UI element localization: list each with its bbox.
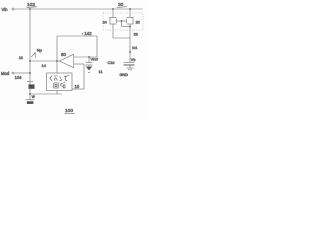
wire left FET drain to cap column	[113, 24, 130, 38]
label 102	[27, 2, 37, 8]
svg-text:60: 60	[61, 52, 66, 57]
wire clamp box ground lead	[30, 91, 62, 95]
svg-text:24: 24	[103, 21, 107, 25]
wire gate line between mirror transistors	[117, 20, 127, 22]
svg-text:GND: GND	[120, 73, 129, 77]
node rail / right FET source	[129, 8, 131, 10]
wire 142 horizontal	[57, 35, 97, 37]
label 20	[117, 2, 128, 8]
input terminal Vin	[2, 7, 15, 12]
svg-text:Mod: Mod	[1, 71, 10, 76]
wire gate to right drain (diode connection)	[122, 21, 131, 27]
wire top rail	[14, 8, 142, 10]
wire vertical from 142 line down to clamp box	[56, 36, 58, 73]
pseudo-glyph n	[59, 77, 62, 81]
ground GND below C10	[120, 68, 134, 77]
node wire14 / vertical 142 branch	[56, 60, 58, 62]
wire Mod input	[14, 72, 30, 74]
pseudo-glyph ra	[54, 76, 58, 81]
svg-text:23: 23	[134, 33, 138, 37]
transistor Np	[19, 48, 43, 60]
wire right FET drain stub	[129, 24, 131, 63]
capacitor at Vref node	[86, 57, 93, 67]
node gate midpoint	[121, 20, 123, 22]
ground left	[26, 95, 35, 104]
svg-text:Vb: Vb	[131, 58, 136, 62]
current mirror block 20 dashed box	[103, 13, 143, 30]
svg-text:Ix1: Ix1	[132, 46, 137, 50]
svg-text:14: 14	[42, 63, 47, 68]
wire 14 : base node to op-amp tip	[30, 60, 60, 62]
node Vb	[129, 51, 135, 62]
node Vref	[88, 56, 98, 61]
pseudo-glyph ro	[60, 83, 65, 88]
op-amp 60	[60, 52, 74, 68]
svg-text:11: 11	[99, 70, 103, 74]
pseudo-glyph kai	[54, 83, 58, 88]
svg-text:18: 18	[19, 56, 23, 60]
node rail / left FET source	[112, 8, 114, 10]
ground below Vref capacitor	[86, 67, 103, 74]
svg-text:Np: Np	[37, 48, 43, 53]
transistor M2 (right of mirror)	[127, 9, 140, 25]
node right drain / gate tie	[129, 26, 131, 28]
wire op-amp lower input feedback	[72, 64, 84, 89]
node at rail/left vertical	[29, 8, 31, 10]
svg-text:Vin: Vin	[2, 7, 9, 12]
wire 142 right vertical down to Vref node	[96, 36, 98, 57]
pseudo-glyph ku	[50, 76, 52, 81]
capacitor C10	[108, 61, 135, 68]
wire op-amp upper input to Vref node	[74, 56, 97, 58]
svg-text:10: 10	[75, 84, 80, 89]
diode D on left vertical	[27, 82, 35, 89]
figure label 100	[65, 108, 76, 114]
clamp circuit box 10	[47, 73, 73, 91]
transistor M1 (left of mirror)	[103, 9, 117, 25]
node Mod / left vertical	[29, 72, 31, 74]
node ground rail / left vertical	[29, 93, 31, 95]
svg-text:Vref: Vref	[91, 57, 99, 62]
wire left vertical	[29, 9, 31, 100]
node base wire / left vertical	[29, 60, 31, 62]
label 142	[82, 33, 83, 34]
svg-text:142: 142	[84, 31, 92, 36]
pseudo-glyph pu	[64, 75, 69, 80]
svg-text:104: 104	[15, 75, 23, 80]
svg-text:25: 25	[136, 21, 140, 25]
input terminal Mod	[1, 71, 14, 76]
svg-text:W: W	[32, 95, 35, 99]
svg-text:C10: C10	[108, 61, 115, 65]
